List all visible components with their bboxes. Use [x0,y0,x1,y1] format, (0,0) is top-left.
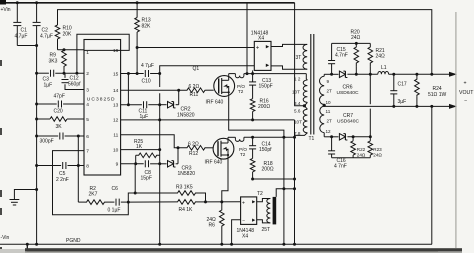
wire to T2 block [206,200,241,203]
svg-text:+: + [256,46,260,52]
svg-text:10: 10 [113,147,119,153]
svg-text:1N5820: 1N5820 [178,171,196,177]
svg-text:X4: X4 [258,36,264,42]
op-amp U1 UC3825D [84,40,121,176]
wire VOUT- to PGND [431,106,433,244]
resistor R4 [128,200,207,213]
svg-text:4 7nF: 4 7nF [334,164,347,170]
svg-text:UC3825D: UC3825D [87,96,116,102]
wire snubber bottom [332,157,371,159]
capacitor C20 [37,94,84,115]
capacitor C15 [328,43,348,74]
wire center bus [158,74,161,246]
svg-text:1K: 1K [136,144,143,150]
svg-text:24Ω: 24Ω [351,35,361,41]
svg-text:150pF: 150pF [259,84,273,90]
svg-text:8: 8 [86,163,89,169]
svg-text:200Ω: 200Ω [258,104,270,110]
svg-text:T2: T2 [240,152,246,157]
svg-text:150pf: 150pf [259,147,272,153]
svg-text:10: 10 [326,100,332,105]
resistor R25 [121,139,160,164]
svg-text:USD640C: USD640C [337,90,359,96]
smudge left edge marks [0,60,2,253]
resistor R10 [55,25,72,50]
transformer T2 25T winding [257,191,270,233]
svg-text:+: + [242,200,245,206]
svg-text:3µF: 3µF [398,99,407,105]
wire riser left [282,137,285,244]
svg-text:5: 5 [86,117,89,123]
node PGND label [66,238,81,244]
wire block1 bottom pin [252,70,254,73]
wire Q2 source run [222,159,228,202]
resistor 3K on pin5 [37,117,84,130]
wire drain A to T1 [244,72,306,79]
svg-text:IRF 640: IRF 640 [205,160,223,166]
diode CR3 [160,146,196,177]
svg-text:2: 2 [86,71,89,77]
svg-text:−: − [464,98,467,104]
wire pin15 jog to block [160,66,255,74]
svg-text:C20: C20 [54,109,63,115]
svg-text:3: 3 [86,87,89,93]
wire VC drop pin15-pin13 [127,74,130,107]
svg-text:R11: R11 [190,92,199,98]
wire block2 lower-left pin [232,220,241,245]
svg-text:R4 1K: R4 1K [179,207,194,213]
transformer T2 sense winding A [235,74,245,95]
wire VOUT+ arrow [449,72,457,77]
svg-text:3.4: 3.4 [294,101,301,106]
svg-text:-Vin: -Vin [1,235,10,241]
wire R13 to diode block [137,47,254,49]
svg-text:7.8: 7.8 [294,131,301,136]
svg-text:4.7nF: 4.7nF [335,53,348,59]
transformer T2 sense winding B [235,137,247,157]
svg-text:15pF: 15pF [141,176,152,182]
svg-text:300pF: 300pF [40,139,54,145]
resistor R12 [187,142,214,157]
capacitor C6 [107,186,130,214]
capacitor C17 [390,74,407,106]
wire feedback rail from R10 to VOUT+ [58,10,432,75]
wire riser right [293,137,296,244]
svg-text:11: 11 [326,109,331,114]
node +Vin terminal [1,7,11,13]
svg-text:T2: T2 [238,89,244,94]
wire VOUT- arrow [449,104,457,109]
svg-text:R6: R6 [209,222,216,228]
svg-text:PGND: PGND [66,238,81,244]
wire R18 to riser [253,178,296,181]
diode CR6 [330,71,378,96]
wire block1 to 3T top [271,44,304,46]
resistor R11 [187,84,214,98]
wire secondary top [324,73,338,75]
svg-text:R3 1K5: R3 1K5 [176,184,193,190]
svg-text:C10: C10 [142,79,151,85]
svg-text:5.6: 5.6 [294,108,301,113]
svg-text:24Ω: 24Ω [357,153,366,158]
capacitor C5 [37,162,84,183]
resistor R13 [135,1,151,75]
capacitor C11 [139,101,160,120]
svg-text:CR6: CR6 [343,84,353,90]
svg-text:51Ω 1W: 51Ω 1W [428,92,446,98]
svg-text:2T: 2T [327,119,333,124]
wire Q1 drain [229,74,236,76]
wire output return [324,105,449,108]
node VOUT terminal [459,80,474,104]
smudge bottom band [0,248,462,253]
svg-text:82K: 82K [142,24,152,30]
wire pin6 to R2 drop [77,136,79,202]
svg-text:4.7µF: 4.7µF [15,34,28,40]
wire pin9 drop [134,164,136,193]
wire CR7 cathode riser [369,74,371,137]
resistor R6 [207,202,225,244]
svg-text:13: 13 [113,103,119,109]
wire block2 to 25T top [257,199,271,202]
transistor Q2 [205,138,234,165]
resistor R3 [135,184,205,202]
svg-text:T1: T1 [309,136,315,142]
svg-text:25T: 25T [262,227,271,233]
transformer T2 core [273,189,284,225]
wire pin7 loop [53,151,129,215]
svg-text:6: 6 [86,134,89,140]
svg-text:1 2: 1 2 [294,77,301,82]
svg-text:12: 12 [326,129,332,134]
resistor R22 [351,137,366,158]
wire pin9 [121,162,144,165]
svg-text:3T: 3T [296,55,302,61]
wire pin12 ground run [121,120,295,137]
inductor L1 [378,65,450,76]
wire pin14 gate A [121,89,187,92]
svg-text:3K3: 3K3 [49,59,58,65]
svg-text:IRF 640: IRF 640 [206,100,224,106]
svg-text:20K: 20K [63,32,73,38]
svg-text:X4: X4 [242,234,248,240]
svg-text:Q1: Q1 [193,66,200,72]
svg-text:4: 4 [86,102,89,108]
resistor R20 [351,29,361,74]
wire snubber top [332,42,371,45]
wire pin11 gate B [121,135,187,148]
smudge top-left corner [0,0,6,5]
svg-text:2 2nF: 2 2nF [56,177,69,183]
svg-text:+: + [464,80,467,86]
wire R10 to pin1 [58,48,85,51]
wire Q2 drain [228,137,235,138]
svg-text:6 2Ω: 6 2Ω [189,84,200,90]
svg-text:3K: 3K [56,124,63,130]
svg-text:C17: C17 [398,81,407,87]
wire riser cross link [284,188,295,190]
capacitor C13 [249,74,273,99]
wire pin15 [121,72,144,75]
capacitor C10 [141,63,161,85]
svg-text:1µF: 1µF [140,114,149,120]
capacitor C14 [249,137,272,158]
svg-text:11: 11 [113,133,118,139]
wire pin16 jog [75,34,129,74]
diode block 1N4148 X4 top [251,30,271,70]
wire PGND rail [0,243,432,246]
svg-text:9: 9 [327,79,330,84]
resistor R18 [250,158,274,180]
svg-text:10T: 10T [292,90,300,95]
svg-text:0 1µF: 0 1µF [108,208,121,214]
transformer T1 primary 1 10T [292,77,307,108]
svg-text:4 7µF: 4 7µF [141,63,154,69]
wire +Vin top rail [0,1,295,4]
capacitor C1 [13,3,27,46]
svg-text:R23: R23 [373,147,382,152]
svg-text:6 2Ω: 6 2Ω [188,142,199,148]
svg-text:14: 14 [113,88,119,94]
svg-text:10T: 10T [294,120,302,125]
wire Q1 source run [229,96,284,137]
svg-text:2T: 2T [327,88,333,93]
svg-text:47pF: 47pF [54,94,65,100]
wire C1-C2 join [17,44,38,47]
svg-text:CR7: CR7 [343,113,353,119]
wire C6 jog up [128,192,136,203]
svg-text:USD640C: USD640C [337,118,359,124]
svg-text:15: 15 [113,71,119,77]
svg-text:200Ω: 200Ω [262,167,274,173]
svg-text:24Ω: 24Ω [376,54,386,60]
svg-text:2K7: 2K7 [89,192,98,198]
resistor R2 [78,186,106,204]
svg-text:VOUT: VOUT [459,90,474,96]
resistor R9 [49,50,67,75]
wire left bus [35,46,38,246]
diode CR7 [324,113,372,140]
diode CR2 [160,90,195,118]
resistor R21 [368,43,385,74]
svg-text:16: 16 [113,48,119,54]
wire +Vin drop to T1 center tap [295,3,305,106]
diode block 1N4148 X4 bottom [237,197,257,240]
wire drain B run [244,136,296,139]
svg-text:560pf: 560pf [68,82,81,88]
wire rail drop to drain A [246,3,248,74]
capacitor 300pF [37,133,84,145]
wire block1 to 3T bottom [271,66,304,69]
capacitor C8 [141,160,160,181]
resistor R24 [415,74,447,106]
capacitor C3 [37,70,84,89]
svg-text:R22: R22 [357,147,366,152]
resistor R16 [250,99,270,122]
capacitor C16 [328,137,347,170]
svg-text:9: 9 [116,162,119,168]
transformer T1 core [309,34,315,142]
svg-text:24Ω: 24Ω [373,153,382,158]
svg-text:+Vin: +Vin [1,7,11,13]
capacitor C2 [33,3,53,46]
node -Vin terminal [1,235,10,241]
svg-text:1: 1 [86,50,89,56]
svg-text:L1: L1 [381,65,387,71]
svg-text:7: 7 [86,148,89,154]
smudge right border [455,12,456,248]
transformer T1 secondary 2 2T [320,106,332,137]
resistor R23 [368,137,382,158]
svg-text:1N5820: 1N5820 [177,112,195,118]
wire block2 to 25T bottom [257,220,271,223]
svg-text:T2: T2 [257,191,263,197]
wire pin13 [121,104,142,106]
svg-text:1µF: 1µF [44,83,53,89]
transformer T1 primary 2 10T [294,106,307,138]
svg-text:12: 12 [113,118,119,124]
svg-text:R12: R12 [189,151,198,157]
svg-text:4.7µF: 4.7µF [40,34,53,40]
svg-text:C6: C6 [112,186,119,192]
svg-text:−: − [242,218,245,224]
transformer T1 secondary 1 2T [320,74,333,107]
ground [10,190,37,206]
transformer T1 3T winding [296,44,308,69]
transistor Q1 [193,66,235,106]
capacitor C12 [62,73,85,89]
wire bottom return [27,244,438,251]
